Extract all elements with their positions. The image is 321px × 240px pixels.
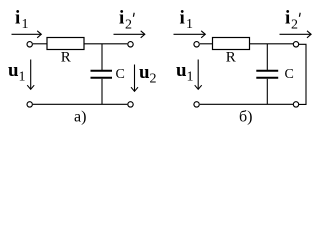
current arrow i1 (circuit a) — [12, 31, 42, 38]
svg-text:1: 1 — [19, 70, 26, 85]
svg-text:1: 1 — [186, 17, 193, 32]
label i2' (circuit b) — [285, 8, 300, 33]
wire resistor to output terminal (circuit a) — [84, 43, 127, 45]
svg-text:i: i — [119, 8, 124, 29]
svg-text:u: u — [139, 62, 150, 83]
svg-text:i: i — [180, 8, 185, 29]
terminal input bottom (circuit b) — [194, 102, 199, 107]
terminal input bottom (circuit a) — [27, 102, 32, 107]
wire input to resistor (circuit a) — [33, 43, 47, 45]
node junction top (circuit b) — [266, 44, 268, 70]
bottom rail wire (circuit b) — [200, 103, 293, 105]
wire capacitor to bottom rail (circuit b) — [266, 79, 268, 105]
svg-text:R: R — [61, 50, 71, 66]
wire capacitor to bottom rail (circuit a) — [101, 79, 103, 105]
short-circuit wire right side (circuit b) — [299, 44, 306, 104]
node junction top (circuit a) — [101, 44, 103, 70]
current arrow i2' (circuit b) — [280, 31, 312, 38]
terminal output top (circuit a) — [128, 42, 133, 47]
svg-text:а): а) — [74, 109, 86, 126]
label u1 (circuit a) — [8, 60, 26, 85]
voltage arrow u1 (circuit b) — [195, 60, 202, 90]
capacitor C (circuit a) — [91, 71, 113, 78]
resistor R (circuit b) — [213, 38, 250, 50]
svg-text:2: 2 — [291, 18, 298, 33]
label i2' (circuit a) — [119, 8, 134, 33]
current arrow i1 (circuit b) — [174, 31, 206, 38]
svg-text:R: R — [226, 50, 236, 66]
svg-text:2: 2 — [125, 18, 132, 33]
terminal output top (circuit b) — [293, 42, 298, 47]
label u1 (circuit b) — [176, 60, 194, 85]
svg-text:б): б) — [239, 109, 252, 126]
svg-text:C: C — [116, 67, 125, 82]
svg-text:1: 1 — [22, 17, 29, 32]
svg-text:u: u — [8, 60, 19, 81]
label i1 (circuit a) — [15, 8, 29, 33]
terminal output bottom (circuit b) — [293, 102, 298, 107]
label u2 (circuit a) — [139, 62, 157, 87]
voltage arrow u1 (circuit a) — [27, 60, 34, 90]
resistor R (circuit a) — [47, 38, 84, 50]
terminal output bottom (circuit a) — [128, 102, 133, 107]
capacitor C (circuit b) — [256, 71, 278, 78]
bottom rail wire (circuit a) — [33, 103, 127, 105]
svg-text:i: i — [285, 8, 290, 29]
terminal input top (circuit a) — [27, 42, 32, 47]
current arrow i2' (circuit a) — [114, 31, 145, 38]
voltage arrow u2 (circuit a) — [131, 65, 138, 92]
svg-text:i: i — [15, 8, 20, 29]
wire input to resistor (circuit b) — [200, 43, 213, 45]
svg-text:C: C — [285, 67, 294, 82]
wire resistor to output terminal (circuit b) — [250, 43, 294, 45]
svg-text:u: u — [176, 60, 187, 81]
svg-text:2: 2 — [150, 72, 157, 87]
svg-text:1: 1 — [187, 70, 194, 85]
label i1 (circuit b) — [180, 8, 194, 33]
terminal input top (circuit b) — [194, 42, 199, 47]
